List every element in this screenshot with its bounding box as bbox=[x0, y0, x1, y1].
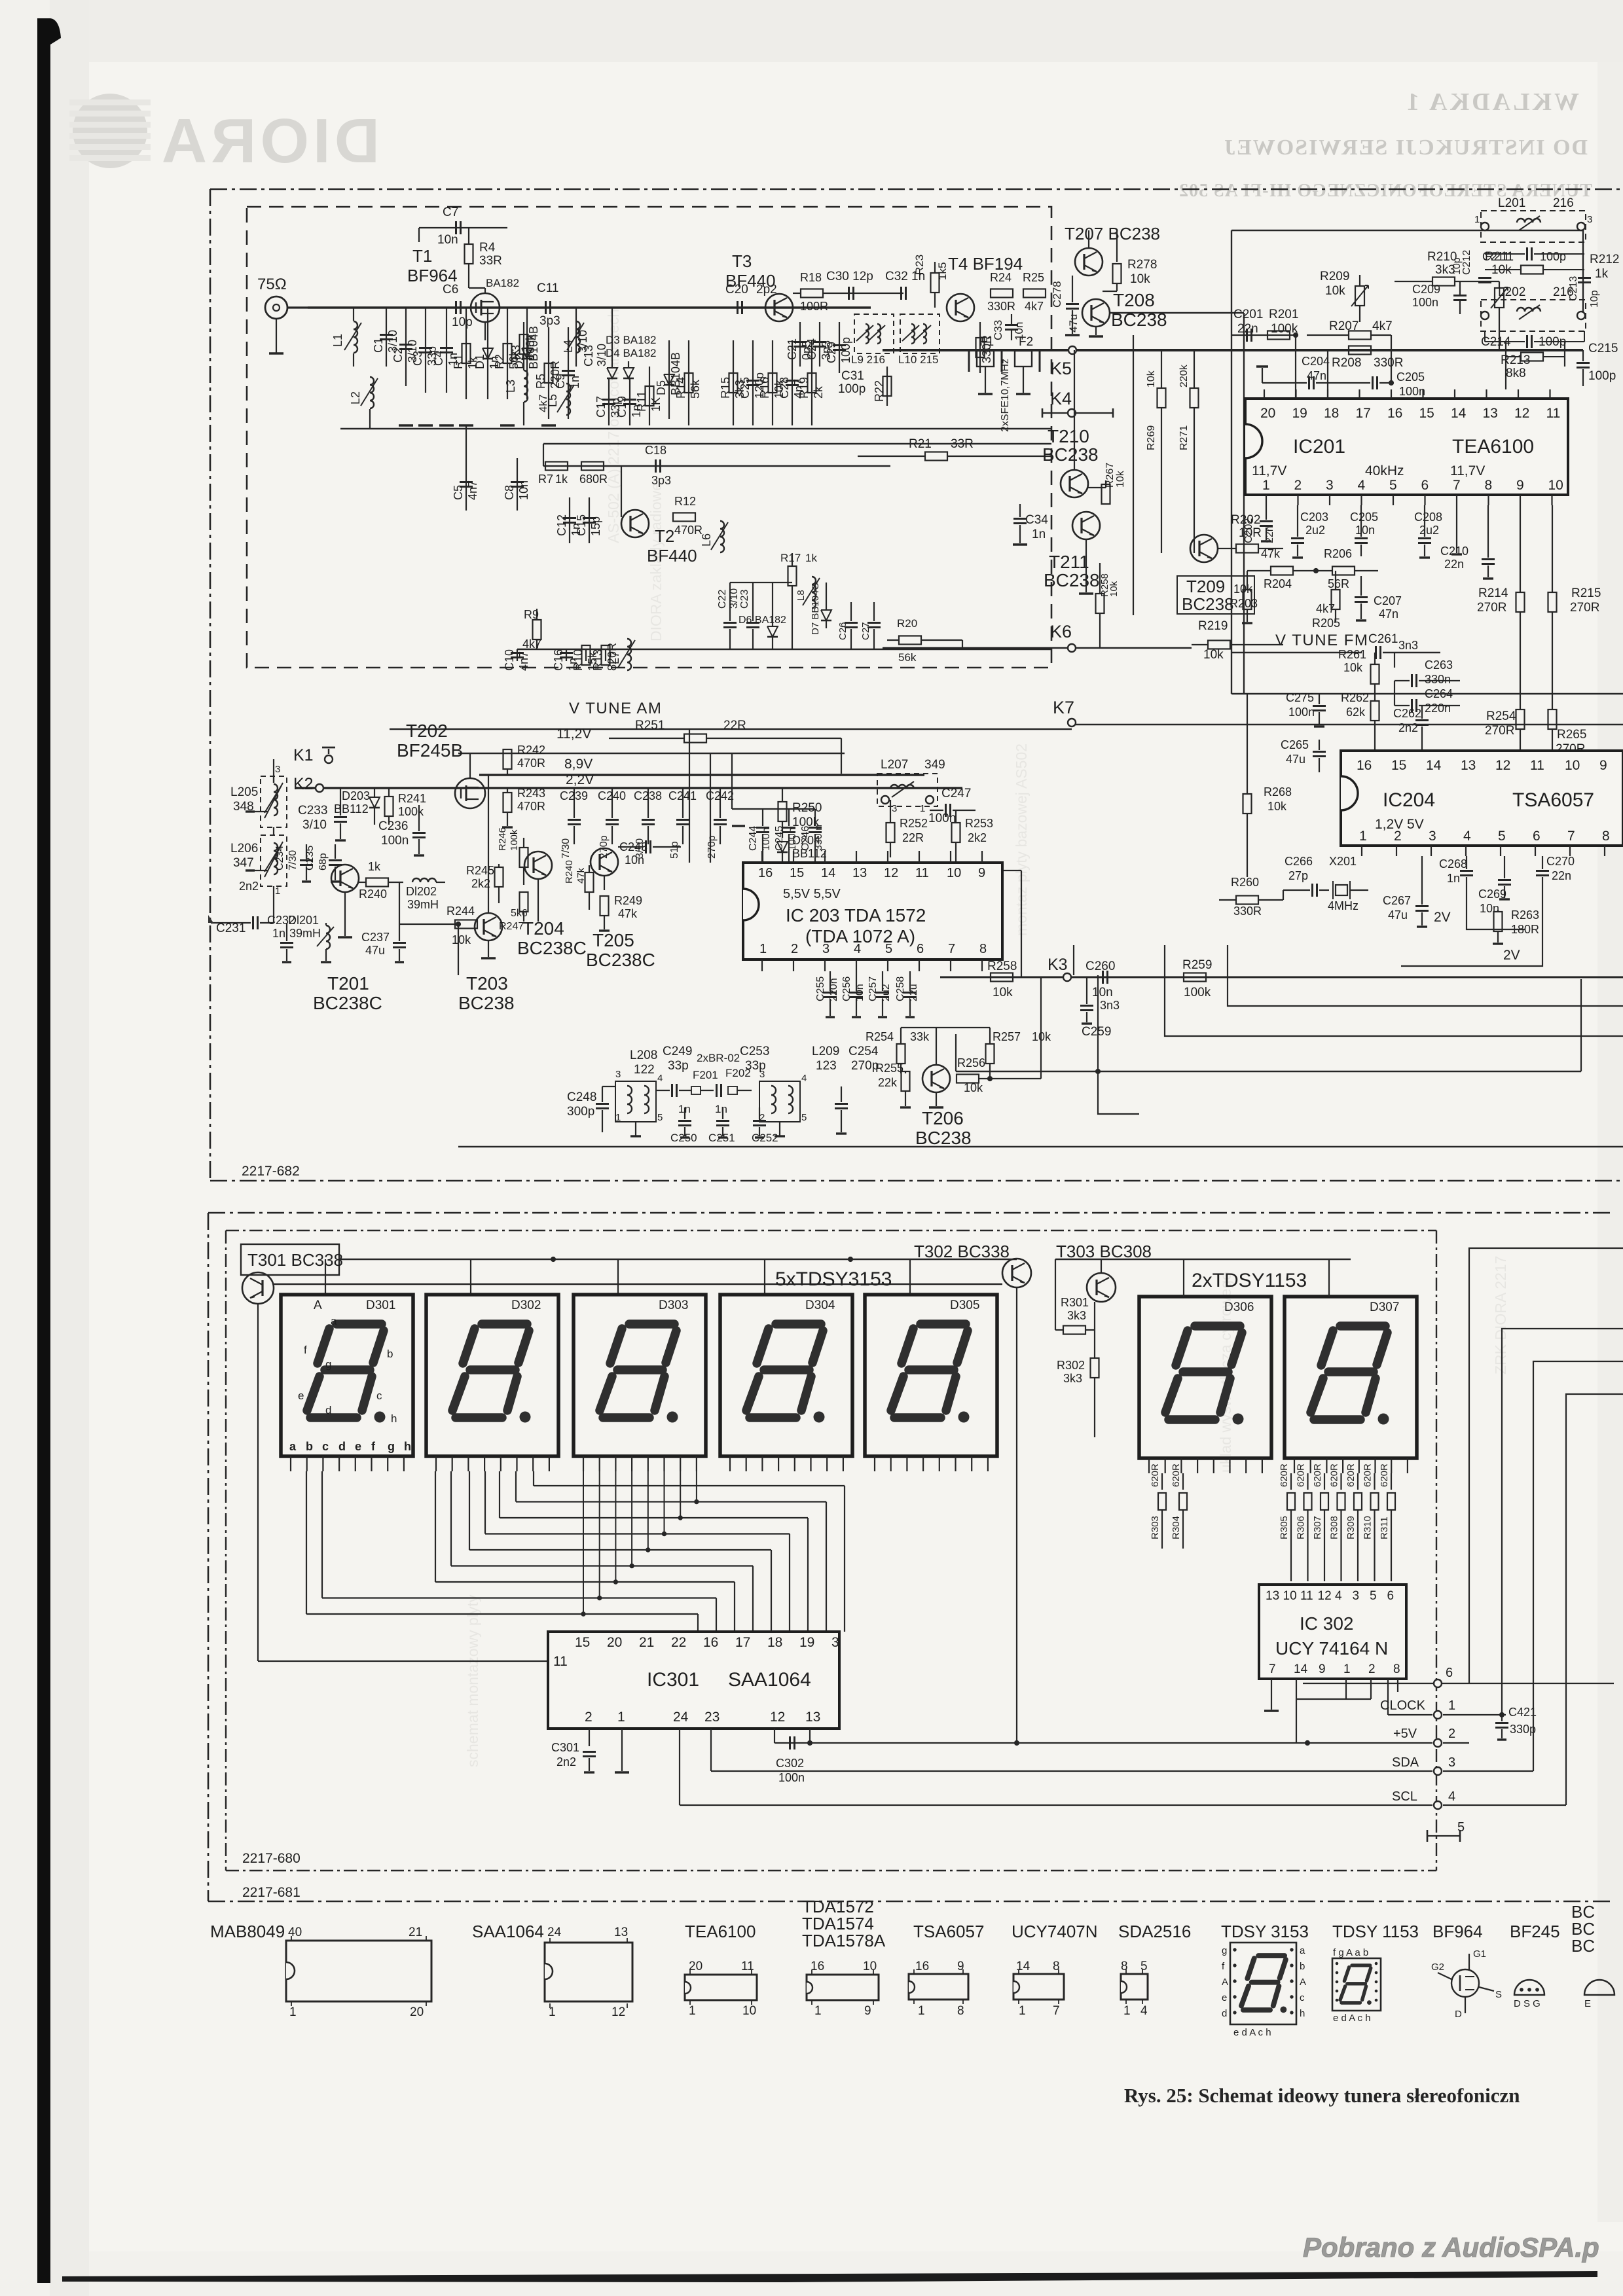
wire top of PLL block bbox=[1231, 230, 1583, 232]
svg-text:12: 12 bbox=[1495, 758, 1510, 773]
svg-text:100k: 100k bbox=[524, 334, 537, 360]
wire vertical feed bbox=[1133, 335, 1134, 615]
svg-text:300p: 300p bbox=[567, 1105, 594, 1119]
svg-text:16: 16 bbox=[915, 1960, 929, 1973]
svg-text:75Ω: 75Ω bbox=[257, 276, 287, 293]
svg-text:330R: 330R bbox=[1233, 905, 1262, 918]
wire display anode rail 1 bbox=[274, 1283, 1002, 1285]
svg-text:13: 13 bbox=[1461, 758, 1476, 773]
svg-text:K7: K7 bbox=[1053, 698, 1074, 717]
svg-text:620R: 620R bbox=[1296, 1463, 1307, 1487]
svg-text:R206: R206 bbox=[1324, 547, 1352, 560]
svg-text:22n: 22n bbox=[1444, 558, 1464, 571]
varicap D5 BB104B bbox=[668, 340, 670, 419]
inductor L5 bbox=[566, 384, 570, 415]
svg-text:L209: L209 bbox=[812, 1045, 839, 1058]
resistor R26 330R bbox=[979, 322, 981, 373]
pin stubs IC204 bbox=[1361, 846, 1362, 856]
IC203 TDA1572 bbox=[743, 863, 1002, 960]
svg-text:C232: C232 bbox=[267, 914, 295, 927]
svg-text:2xSFE10,7MHz: 2xSFE10,7MHz bbox=[1000, 359, 1011, 432]
resistor R267 bbox=[1088, 487, 1106, 488]
pin stubs IC201 bottom bbox=[1266, 495, 1267, 505]
svg-text:T4 BF194: T4 BF194 bbox=[948, 254, 1023, 274]
svg-text:6: 6 bbox=[1421, 478, 1429, 493]
svg-text:BC238: BC238 bbox=[458, 993, 515, 1013]
svg-text:3k3: 3k3 bbox=[1067, 1309, 1086, 1322]
svg-text:DO INSTRUKCJI SERWISOWEJ: DO INSTRUKCJI SERWISOWEJ bbox=[1223, 135, 1588, 160]
svg-text:R5: R5 bbox=[534, 374, 547, 389]
pinout TDSY1153 pin dots bbox=[1336, 1962, 1338, 1965]
svg-text:123: 123 bbox=[816, 1059, 837, 1073]
svg-text:T302 BC338: T302 BC338 bbox=[914, 1242, 1010, 1261]
svg-text:R208: R208 bbox=[1332, 356, 1361, 370]
svg-text:(TDA 1072 A): (TDA 1072 A) bbox=[805, 926, 915, 946]
svg-text:15: 15 bbox=[1419, 406, 1434, 421]
svg-text:1k: 1k bbox=[805, 552, 817, 564]
svg-text:C236: C236 bbox=[378, 819, 408, 833]
svg-text:100k: 100k bbox=[398, 805, 424, 818]
svg-text:Pobrano z AudioSPA.p: Pobrano z AudioSPA.p bbox=[1303, 2232, 1599, 2263]
resistor R2 bbox=[507, 308, 508, 399]
svg-text:E: E bbox=[1584, 1998, 1591, 2009]
svg-text:R255: R255 bbox=[875, 1062, 903, 1075]
svg-text:2n2: 2n2 bbox=[1398, 721, 1418, 734]
svg-text:C267: C267 bbox=[1383, 894, 1411, 907]
svg-text:V TUNE AM: V TUNE AM bbox=[569, 700, 662, 717]
svg-text:1: 1 bbox=[1343, 1662, 1351, 1676]
svg-text:C270: C270 bbox=[1546, 855, 1575, 868]
svg-text:40kHz: 40kHz bbox=[1365, 463, 1404, 478]
svg-text:40: 40 bbox=[288, 1926, 302, 1939]
svg-text:TDSY 1153: TDSY 1153 bbox=[1332, 1922, 1419, 1941]
transistor T211 BC238 bbox=[1072, 512, 1100, 539]
svg-text:C215: C215 bbox=[1588, 342, 1618, 355]
svg-text:24: 24 bbox=[673, 1710, 689, 1725]
svg-text:7: 7 bbox=[1567, 829, 1575, 844]
svg-text:2n2: 2n2 bbox=[239, 880, 259, 893]
mirrored DIORA logo show-through bbox=[158, 106, 380, 176]
svg-text:3p3: 3p3 bbox=[539, 314, 560, 328]
svg-text:BB112: BB112 bbox=[334, 802, 369, 816]
svg-text:BC238C: BC238C bbox=[586, 950, 655, 970]
svg-text:g: g bbox=[1222, 1945, 1227, 1956]
svg-text:11: 11 bbox=[915, 866, 929, 880]
svg-text:BF245B: BF245B bbox=[397, 740, 463, 761]
svg-text:IC 302: IC 302 bbox=[1300, 1613, 1354, 1634]
svg-text:e: e bbox=[355, 1440, 361, 1453]
svg-text:D: D bbox=[1455, 2009, 1462, 2020]
capacitor C6 bbox=[455, 301, 457, 314]
transistor T205 BC238C bbox=[591, 848, 618, 876]
wire K2 bus bbox=[296, 787, 962, 789]
resistor R24 bbox=[991, 289, 1013, 298]
IC301 SAA1064 bbox=[548, 1632, 839, 1729]
svg-text:16: 16 bbox=[811, 1960, 824, 1973]
svg-text:2: 2 bbox=[1448, 1727, 1455, 1741]
svg-text:R262: R262 bbox=[1341, 691, 1369, 704]
svg-text:D1: D1 bbox=[473, 354, 486, 369]
svg-text:1: 1 bbox=[1019, 2004, 1026, 2018]
svg-text:K3: K3 bbox=[1048, 956, 1068, 974]
svg-text:3: 3 bbox=[615, 1069, 621, 1080]
svg-text:1n: 1n bbox=[272, 927, 285, 940]
node K3 bbox=[1063, 973, 1071, 981]
svg-text:16: 16 bbox=[703, 1635, 718, 1650]
resistor bank R305-R311 620R bbox=[1290, 1473, 1292, 1490]
svg-text:10n: 10n bbox=[1355, 524, 1375, 537]
svg-text:C248: C248 bbox=[567, 1090, 596, 1104]
svg-text:C301: C301 bbox=[551, 1741, 579, 1754]
resistor R15 bbox=[733, 340, 734, 425]
svg-text:BC238: BC238 bbox=[915, 1128, 972, 1148]
svg-text:7: 7 bbox=[948, 942, 955, 956]
svg-text:4n7: 4n7 bbox=[466, 480, 479, 500]
svg-text:33k: 33k bbox=[910, 1030, 930, 1043]
svg-text:2: 2 bbox=[585, 1710, 593, 1725]
svg-text:C421: C421 bbox=[1508, 1706, 1537, 1719]
svg-text:C262: C262 bbox=[1393, 707, 1421, 720]
svg-text:3: 3 bbox=[1587, 214, 1592, 225]
svg-text:C26: C26 bbox=[837, 622, 848, 640]
inductor L8 bbox=[812, 577, 816, 608]
svg-text:L10 215: L10 215 bbox=[898, 353, 938, 366]
svg-text:TSA6057: TSA6057 bbox=[1512, 789, 1594, 811]
IC302 bottom stubs bbox=[1271, 1679, 1272, 1692]
svg-text:100p: 100p bbox=[1540, 250, 1566, 263]
svg-text:15p: 15p bbox=[589, 516, 602, 536]
svg-text:5: 5 bbox=[801, 1112, 807, 1123]
svg-text:e: e bbox=[1222, 1992, 1227, 2003]
capacitor C16 bbox=[566, 649, 567, 661]
ground pin7 bbox=[1456, 505, 1457, 553]
svg-text:R310: R310 bbox=[1362, 1516, 1374, 1539]
svg-text:C278: C278 bbox=[1051, 281, 1063, 308]
svg-text:C237: C237 bbox=[361, 931, 390, 944]
svg-text:17: 17 bbox=[735, 1635, 750, 1650]
svg-text:12: 12 bbox=[770, 1710, 785, 1725]
svg-text:220n: 220n bbox=[1425, 702, 1451, 715]
svg-text:13: 13 bbox=[1483, 406, 1498, 421]
svg-text:R260: R260 bbox=[1231, 876, 1259, 889]
svg-text:C4: C4 bbox=[432, 351, 445, 366]
wire D306 D307 anode stubs bbox=[1183, 1259, 1184, 1297]
svg-text:20: 20 bbox=[1260, 406, 1275, 421]
svg-text:F201: F201 bbox=[693, 1069, 718, 1081]
svg-text:8,9V: 8,9V bbox=[564, 757, 593, 772]
svg-text:R21: R21 bbox=[909, 437, 932, 451]
svg-text:R244: R244 bbox=[447, 905, 475, 918]
svg-text:3: 3 bbox=[892, 803, 897, 814]
svg-text:6: 6 bbox=[1446, 1666, 1453, 1680]
svg-text:62k: 62k bbox=[1346, 706, 1366, 719]
svg-text:2xTDSY1153: 2xTDSY1153 bbox=[1192, 1270, 1307, 1291]
svg-text:1: 1 bbox=[814, 2004, 822, 2018]
inductor L1 bbox=[353, 308, 354, 321]
resistor R13 bbox=[605, 649, 606, 661]
svg-text:C16: C16 bbox=[552, 649, 565, 671]
svg-text:BF440: BF440 bbox=[647, 546, 697, 565]
wire ic203 top feed bbox=[732, 808, 815, 810]
svg-text:27p: 27p bbox=[1288, 869, 1308, 882]
svg-text:TDA1578A: TDA1578A bbox=[802, 1931, 886, 1950]
resistor R5 bbox=[548, 327, 549, 419]
left page edge black bar bbox=[37, 18, 50, 2283]
svg-text:14: 14 bbox=[821, 866, 835, 880]
svg-text:R268: R268 bbox=[1264, 785, 1292, 798]
svg-text:11,7V: 11,7V bbox=[1252, 463, 1286, 478]
capacitor C11 bbox=[545, 301, 547, 314]
svg-text:Dl202: Dl202 bbox=[406, 885, 437, 898]
svg-text:C1: C1 bbox=[372, 338, 385, 353]
svg-text:2: 2 bbox=[1294, 478, 1302, 493]
svg-text:19: 19 bbox=[799, 1635, 814, 1650]
svg-text:R20: R20 bbox=[897, 617, 917, 630]
svg-text:A: A bbox=[1300, 1977, 1306, 1988]
svg-text:1,2V 5V: 1,2V 5V bbox=[1375, 817, 1424, 832]
svg-text:330R: 330R bbox=[1374, 356, 1403, 370]
display D303 bbox=[574, 1295, 706, 1456]
resistor R4 bbox=[468, 228, 469, 243]
svg-text:SAA1064: SAA1064 bbox=[472, 1922, 544, 1941]
svg-text:BF964: BF964 bbox=[1432, 1922, 1483, 1941]
svg-text:K6: K6 bbox=[1050, 622, 1072, 641]
svg-text:2u2: 2u2 bbox=[1305, 524, 1325, 537]
svg-text:b: b bbox=[1300, 1961, 1305, 1972]
svg-text:C211: C211 bbox=[1482, 250, 1510, 263]
svg-text:14: 14 bbox=[1426, 758, 1442, 773]
svg-text:R11: R11 bbox=[635, 391, 648, 412]
svg-text:16: 16 bbox=[1357, 758, 1372, 773]
capacitor C21 bbox=[799, 322, 801, 367]
svg-text:51p: 51p bbox=[669, 841, 680, 859]
svg-text:10p: 10p bbox=[1589, 290, 1600, 308]
svg-text:C275: C275 bbox=[1286, 691, 1314, 704]
svg-text:b: b bbox=[306, 1440, 313, 1453]
svg-text:10: 10 bbox=[742, 2004, 756, 2018]
svg-text:C201: C201 bbox=[1233, 308, 1263, 321]
svg-text:3: 3 bbox=[1326, 478, 1334, 493]
svg-text:10: 10 bbox=[1548, 478, 1563, 493]
wire FM agc top bbox=[419, 227, 507, 228]
display segment drop wires with junctions bbox=[583, 1471, 584, 1614]
svg-text:11,2V: 11,2V bbox=[556, 726, 591, 742]
svg-text:620R: 620R bbox=[1279, 1463, 1290, 1487]
resistor R1 bbox=[465, 308, 467, 399]
svg-text:100n: 100n bbox=[1412, 296, 1438, 309]
IC301 bottom pin stubs bbox=[589, 1729, 590, 1746]
svg-text:10n: 10n bbox=[517, 480, 530, 500]
resistor R7 bbox=[545, 462, 568, 471]
resistor R16 bbox=[772, 340, 773, 425]
svg-text:C22: C22 bbox=[717, 590, 728, 609]
svg-text:D5: D5 bbox=[655, 380, 668, 395]
svg-text:C266: C266 bbox=[1285, 855, 1313, 868]
svg-text:10k: 10k bbox=[1267, 800, 1287, 813]
wire long bus under PLL bbox=[1231, 693, 1623, 694]
svg-text:IC301: IC301 bbox=[647, 1669, 699, 1691]
svg-text:100n: 100n bbox=[1288, 706, 1315, 719]
svg-text:13: 13 bbox=[614, 1926, 628, 1939]
svg-text:23: 23 bbox=[704, 1710, 720, 1725]
svg-text:g: g bbox=[388, 1440, 395, 1453]
pinout box pin ticks bbox=[291, 1936, 292, 1941]
resistor R3 bbox=[523, 322, 524, 367]
svg-text:C233: C233 bbox=[298, 804, 327, 817]
resistors R303 R304 620R bbox=[1161, 1473, 1163, 1490]
svg-text:33R: 33R bbox=[479, 254, 502, 268]
svg-text:9: 9 bbox=[1319, 1662, 1326, 1676]
wires IC302 pins join bbox=[1296, 1692, 1297, 1699]
svg-text:R13: R13 bbox=[591, 649, 604, 671]
svg-text:C205: C205 bbox=[1396, 370, 1425, 384]
capacitor C254 sym bbox=[835, 1103, 848, 1105]
svg-text:R219: R219 bbox=[1198, 619, 1228, 633]
svg-text:D304: D304 bbox=[805, 1299, 835, 1312]
svg-text:R204: R204 bbox=[1264, 577, 1292, 590]
svg-text:R245: R245 bbox=[466, 864, 494, 877]
svg-text:T204: T204 bbox=[522, 918, 564, 939]
svg-text:C21: C21 bbox=[786, 338, 799, 360]
svg-text:349: 349 bbox=[924, 758, 945, 772]
svg-text:C261: C261 bbox=[1368, 632, 1398, 646]
svg-text:56R: 56R bbox=[1328, 577, 1349, 590]
svg-text:R301: R301 bbox=[1061, 1296, 1089, 1309]
svg-text:4: 4 bbox=[1463, 829, 1471, 844]
svg-text:TEA6100: TEA6100 bbox=[1452, 436, 1534, 457]
capacitor C20 bbox=[737, 301, 739, 314]
wire K5 IF bus bbox=[883, 349, 1583, 351]
svg-text:5: 5 bbox=[657, 1112, 663, 1123]
svg-text:7: 7 bbox=[1053, 2004, 1060, 2018]
display D305 bbox=[865, 1295, 997, 1456]
svg-text:620R: 620R bbox=[1171, 1463, 1182, 1487]
ground IC302 pin7 bbox=[1271, 1692, 1272, 1710]
svg-text:330R: 330R bbox=[987, 300, 1015, 313]
wire scl rail bbox=[680, 1804, 1432, 1806]
svg-text:R19: R19 bbox=[797, 377, 811, 399]
svg-text:T208: T208 bbox=[1113, 290, 1155, 310]
wire plus5v rail bbox=[775, 1742, 1432, 1744]
svg-text:2217-680: 2217-680 bbox=[242, 1851, 301, 1866]
svg-text:L7: L7 bbox=[608, 651, 621, 664]
svg-text:C31: C31 bbox=[841, 369, 864, 383]
capacitor C7 bbox=[455, 221, 457, 234]
svg-text:h: h bbox=[391, 1412, 397, 1425]
svg-text:L6: L6 bbox=[700, 533, 713, 547]
bottom page edge dark line bbox=[62, 2271, 1597, 2282]
svg-text:T2: T2 bbox=[655, 526, 674, 546]
svg-text:R265: R265 bbox=[1557, 728, 1586, 742]
svg-text:d: d bbox=[1222, 2008, 1227, 2019]
svg-text:2,2V: 2,2V bbox=[566, 772, 594, 787]
svg-text:47n: 47n bbox=[1379, 607, 1398, 620]
svg-text:3: 3 bbox=[759, 1069, 765, 1080]
svg-text:680R: 680R bbox=[579, 473, 608, 486]
svg-text:C204: C204 bbox=[1302, 355, 1330, 368]
display D307 bbox=[1285, 1297, 1417, 1458]
svg-text:C11: C11 bbox=[537, 281, 558, 295]
svg-text:C259: C259 bbox=[1082, 1025, 1111, 1039]
svg-text:R254: R254 bbox=[866, 1030, 894, 1043]
svg-text:4k7: 4k7 bbox=[537, 395, 549, 412]
svg-text:11: 11 bbox=[1546, 406, 1561, 421]
node 6 row bbox=[1303, 1683, 1614, 1684]
wire v tune fm bbox=[1231, 652, 1362, 653]
svg-text:8: 8 bbox=[1393, 1662, 1400, 1676]
svg-text:b: b bbox=[387, 1348, 393, 1360]
svg-text:347: 347 bbox=[233, 856, 254, 870]
svg-text:4k7: 4k7 bbox=[1025, 300, 1044, 313]
svg-text:15: 15 bbox=[790, 866, 804, 880]
svg-text:R253: R253 bbox=[965, 817, 993, 830]
capacitor C9 bbox=[568, 327, 569, 419]
svg-text:4: 4 bbox=[1448, 1789, 1455, 1804]
svg-text:11: 11 bbox=[1300, 1589, 1313, 1603]
svg-text:R252: R252 bbox=[900, 817, 928, 830]
svg-text:3: 3 bbox=[831, 1635, 839, 1650]
svg-text:D301: D301 bbox=[366, 1299, 395, 1312]
svg-text:1n: 1n bbox=[1032, 528, 1046, 541]
svg-text:F1: F1 bbox=[979, 335, 994, 349]
svg-text:C10: C10 bbox=[503, 649, 516, 671]
svg-text:47u: 47u bbox=[365, 944, 385, 957]
svg-text:R24: R24 bbox=[990, 271, 1012, 284]
svg-text:D203: D203 bbox=[342, 789, 370, 802]
svg-text:L8: L8 bbox=[795, 590, 807, 601]
svg-text:R247: R247 bbox=[499, 921, 524, 932]
svg-text:47k: 47k bbox=[1261, 547, 1281, 560]
svg-text:2xBR-02: 2xBR-02 bbox=[697, 1052, 740, 1064]
svg-text:C6: C6 bbox=[443, 283, 458, 296]
svg-text:216: 216 bbox=[1553, 196, 1574, 210]
svg-text:4MHz: 4MHz bbox=[1328, 899, 1359, 912]
svg-text:L206: L206 bbox=[230, 842, 258, 855]
svg-text:20: 20 bbox=[689, 1960, 702, 1973]
svg-text:100R: 100R bbox=[800, 300, 828, 313]
IC302 top pin stubs bbox=[1290, 1581, 1292, 1585]
svg-text:+5V: +5V bbox=[1393, 1727, 1417, 1741]
svg-text:C23: C23 bbox=[739, 590, 750, 609]
mixer coils L9 216 bbox=[854, 314, 894, 353]
svg-text:2k: 2k bbox=[812, 386, 825, 399]
svg-text:2k2: 2k2 bbox=[471, 877, 490, 890]
svg-text:e d A c h: e d A c h bbox=[1233, 2027, 1271, 2038]
svg-text:C265: C265 bbox=[1281, 738, 1309, 751]
svg-text:24: 24 bbox=[547, 1926, 562, 1939]
svg-text:11,7V: 11,7V bbox=[1450, 463, 1485, 478]
svg-text:13: 13 bbox=[852, 866, 867, 880]
svg-text:R201: R201 bbox=[1269, 308, 1298, 321]
svg-text:1K: 1K bbox=[649, 397, 663, 412]
svg-text:270R: 270R bbox=[1570, 601, 1599, 615]
svg-text:R212: R212 bbox=[1590, 253, 1619, 266]
svg-text:WKLADKA 1: WKLADKA 1 bbox=[1404, 88, 1579, 116]
svg-text:C7: C7 bbox=[443, 206, 458, 219]
svg-text:220k: 220k bbox=[1178, 364, 1190, 387]
svg-text:R305: R305 bbox=[1279, 1516, 1290, 1539]
svg-text:7: 7 bbox=[1453, 478, 1461, 493]
resistor R8 680R bbox=[581, 462, 604, 471]
resistor R258b bbox=[1096, 594, 1104, 613]
svg-text:C2: C2 bbox=[392, 348, 405, 363]
svg-text:h: h bbox=[1300, 2008, 1305, 2019]
display D304 bbox=[720, 1295, 852, 1456]
svg-text:R17: R17 bbox=[780, 552, 801, 564]
svg-text:C34: C34 bbox=[1025, 513, 1048, 527]
svg-text:R258: R258 bbox=[987, 960, 1017, 973]
svg-text:BC238: BC238 bbox=[1042, 444, 1099, 465]
